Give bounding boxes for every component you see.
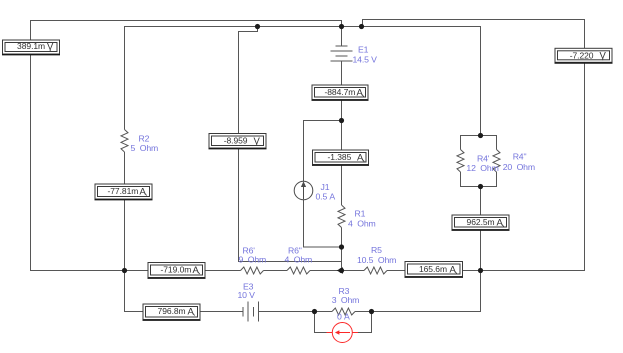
node P	[478, 268, 483, 273]
wire ammeter -77.81mA to node D	[124, 199, 126, 271]
node A	[255, 24, 260, 29]
svg-text:4 Ohm: 4 Ohm	[285, 255, 313, 265]
ammeter 962.5mA	[452, 215, 510, 230]
wire R4 bottom rail	[461, 172, 497, 187]
resistor R4pp	[493, 150, 500, 173]
svg-text:-8.959: -8.959	[224, 136, 248, 146]
wire bottom rail R6pp to R5	[310, 270, 364, 272]
svg-text:A: A	[357, 152, 364, 163]
wire x238 branch below voltmeter to node L	[239, 149, 342, 262]
svg-text:A: A	[357, 87, 364, 98]
svg-text:3 Ohm: 3 Ohm	[332, 295, 360, 305]
ammeter -719.0mA	[148, 263, 206, 279]
wire bottom rail R6p to R6pp	[264, 270, 288, 272]
ammeter -77.81mA	[95, 184, 153, 200]
ammeter 165.6mA	[405, 262, 464, 278]
svg-text:389.1m: 389.1m	[17, 41, 45, 51]
wire node D down to row2	[125, 271, 144, 312]
svg-text:962.5m: 962.5m	[467, 217, 495, 227]
wire node J to J1 top	[304, 121, 342, 182]
wire left vertical to bottom rail	[31, 54, 149, 271]
resistor R5	[364, 267, 387, 274]
node C	[359, 24, 364, 29]
wire step from node C to x238 branch	[239, 27, 258, 134]
wire R3 left lead	[315, 311, 333, 313]
current source J1	[294, 181, 313, 200]
wire ammeter -1.385A to R1 top	[341, 165, 343, 206]
node B	[339, 24, 344, 29]
svg-text:5 Ohm: 5 Ohm	[131, 143, 159, 153]
current source I1 red	[327, 323, 359, 343]
svg-text:9 Ohm: 9 Ohm	[239, 255, 267, 265]
svg-text:4 Ohm: 4 Ohm	[348, 219, 376, 229]
wire ammeter 962.5mA to node P	[480, 230, 482, 271]
ammeter -884.7mA	[312, 85, 369, 100]
svg-text:R4': R4'	[477, 153, 490, 163]
node Q	[312, 309, 317, 314]
svg-text:14.5 V: 14.5 V	[353, 55, 378, 65]
svg-text:-884.7m: -884.7m	[324, 87, 355, 97]
wire E1 bottom lead to ammeter	[341, 61, 343, 85]
wire R2 bottom to ammeter -77.81mA	[124, 152, 126, 184]
resistor R6pp	[287, 267, 310, 274]
svg-text:A: A	[140, 186, 147, 197]
wire R4 branch feed	[362, 27, 481, 136]
battery E1	[331, 46, 353, 61]
wire I1 branch left	[315, 312, 327, 333]
svg-text:-1.385: -1.385	[327, 152, 351, 162]
wire R3 right lead	[355, 311, 372, 313]
svg-text:20 Ohm: 20 Ohm	[503, 162, 535, 172]
voltmeter 389.1mV	[2, 40, 60, 55]
node N	[478, 184, 483, 189]
svg-text:R1: R1	[355, 208, 366, 218]
svg-text:0 A: 0 A	[337, 312, 350, 322]
wire top-left rail	[31, 21, 342, 41]
wire ammeter -884.7mA to node J	[341, 100, 343, 151]
node R	[369, 309, 374, 314]
voltmeter -8.959V	[209, 134, 267, 149]
wire row2 meter to E3	[200, 311, 243, 313]
svg-text:-77.81m: -77.81m	[107, 186, 138, 196]
svg-text:796.8m: 796.8m	[158, 306, 186, 316]
svg-text:A: A	[497, 217, 504, 228]
svg-text:E1: E1	[358, 45, 369, 55]
ammeter 796.8mA	[143, 304, 201, 320]
svg-text:A: A	[193, 265, 200, 276]
node J	[339, 118, 344, 123]
wire R4 bottom to ammeter 962.5mA	[480, 187, 482, 216]
wire R4 top rail	[461, 136, 497, 150]
wire top-right rail	[342, 20, 585, 49]
node M	[478, 133, 483, 138]
resistor R2	[121, 130, 128, 153]
svg-text:10.5 Ohm: 10.5 Ohm	[357, 255, 396, 265]
wire J1 bottom to node K	[304, 200, 342, 247]
svg-text:-719.0m: -719.0m	[160, 265, 191, 275]
resistor R6p	[241, 267, 264, 274]
resistor R3	[332, 308, 355, 315]
svg-text:0.5 A: 0.5 A	[316, 192, 336, 202]
svg-text:165.6m: 165.6m	[419, 264, 447, 274]
battery E3	[243, 302, 259, 322]
node D	[122, 268, 127, 273]
resistor R1	[338, 205, 345, 228]
svg-text:-7.220: -7.220	[570, 50, 594, 60]
ammeter -1.385A	[312, 150, 369, 165]
wire bottom rail meter to R6p	[205, 270, 241, 272]
svg-text:R2: R2	[139, 134, 150, 144]
svg-text:A: A	[450, 264, 457, 275]
wire node P down to bottom row	[372, 271, 481, 312]
svg-text:10 V: 10 V	[238, 290, 256, 300]
wire E1 top lead	[341, 27, 343, 47]
voltmeter -7.220V	[555, 48, 613, 63]
resistor R4p	[457, 150, 464, 173]
svg-text:12 Ohm: 12 Ohm	[466, 163, 498, 173]
wire second top rail from node B	[125, 27, 342, 130]
wire right vertical below voltmeter	[463, 62, 585, 271]
junction node L with arrow	[337, 267, 345, 273]
wire row2 E3 to R3 left node	[259, 311, 315, 313]
wire bottom rail R5 to ammeter	[387, 270, 405, 272]
node K	[339, 244, 344, 249]
svg-text:R4": R4"	[513, 152, 527, 162]
wire I1 branch right	[358, 312, 372, 333]
svg-text:J1: J1	[321, 182, 330, 192]
svg-text:R5: R5	[371, 245, 382, 255]
wire R1 bottom to node L	[341, 228, 343, 271]
svg-text:A: A	[188, 306, 195, 317]
